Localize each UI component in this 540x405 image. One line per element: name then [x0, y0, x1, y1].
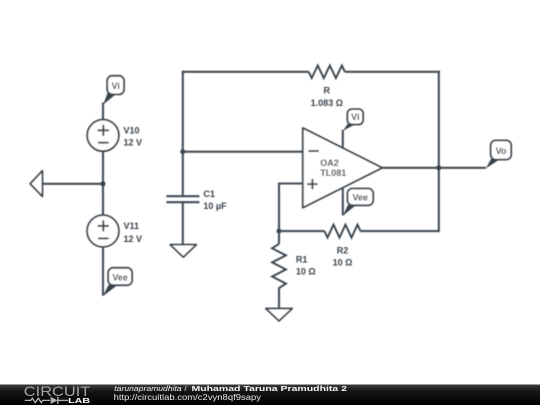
- svg-text:Vee: Vee: [353, 193, 369, 203]
- CircuitLab logo: [24, 384, 91, 405]
- wire op-amp output: [382, 167, 486, 169]
- ground (below C1): [170, 245, 196, 258]
- svg-text:Vo: Vo: [496, 146, 507, 156]
- svg-text:R2: R2: [337, 246, 349, 256]
- svg-text:Vi: Vi: [351, 112, 359, 122]
- footer credit text: [114, 384, 347, 402]
- svg-text:12 V: 12 V: [124, 138, 143, 148]
- svg-text:12 V: 12 V: [124, 234, 143, 244]
- svg-text:OA2: OA2: [320, 158, 339, 168]
- wire top rail left: [182, 71, 309, 73]
- net flag Vo: [486, 140, 511, 168]
- svg-text:LAB: LAB: [68, 396, 90, 405]
- voltage source V10: [87, 120, 119, 152]
- svg-text:http://circuitlab.com/c2vyn8qf: http://circuitlab.com/c2vyn8qf9sapy: [114, 393, 262, 402]
- svg-text:TL081: TL081: [320, 168, 346, 178]
- svg-text:V10: V10: [124, 126, 140, 136]
- resistor R2: [325, 225, 361, 238]
- ground (below R1): [266, 309, 292, 321]
- svg-text:V11: V11: [124, 221, 140, 231]
- wire C1-to-ground: [182, 202, 184, 244]
- label C1 value: [203, 189, 227, 211]
- label V10 value: [124, 126, 143, 148]
- op-amp V- power pin: [342, 188, 344, 216]
- svg-text:Muhamad Taruna Pramudhita 2: Muhamad Taruna Pramudhita 2: [192, 384, 348, 393]
- wire right rail vertical: [438, 71, 440, 232]
- svg-text:R: R: [324, 86, 331, 96]
- voltage source V11: [87, 215, 119, 247]
- junction output/right rail: [436, 165, 441, 170]
- svg-text:10 Ω: 10 Ω: [333, 258, 353, 268]
- svg-text:10 Ω: 10 Ω: [296, 266, 316, 276]
- svg-text:10 µF: 10 µF: [203, 201, 227, 211]
- label R1 value: [296, 254, 316, 276]
- svg-text:R1: R1: [296, 254, 308, 264]
- junction at left rail / inverting input: [180, 149, 185, 154]
- ground (left of sources): [30, 171, 103, 197]
- wire R2 to right rail: [361, 230, 439, 232]
- label R2 value: [333, 246, 353, 268]
- wire top rail right: [345, 71, 440, 73]
- svg-text:1.083 Ω: 1.083 Ω: [311, 98, 343, 108]
- wire left rail vertical: [182, 71, 184, 196]
- wire V11-to-Vee flag: [102, 247, 104, 296]
- capacitor C1: [166, 196, 199, 202]
- wire to inverting input: [183, 151, 303, 153]
- net flag Vee (source): [103, 268, 132, 296]
- wire noninverting input to bottom node: [279, 184, 303, 232]
- wire flag-to-V10: [102, 103, 104, 120]
- label OA2 TL081: [320, 158, 346, 178]
- resistor R1: [272, 231, 286, 308]
- svg-text:Vee: Vee: [112, 273, 128, 283]
- svg-text:Vi: Vi: [112, 81, 120, 91]
- op-amp V+ power pin: [342, 130, 344, 148]
- junction at sources midpoint: [101, 181, 106, 186]
- svg-text:tarunapramudhita: tarunapramudhita: [114, 384, 182, 393]
- net flag Vi (source): [103, 76, 124, 105]
- label R value: [311, 86, 343, 108]
- label V11 value: [124, 221, 143, 244]
- wire V10-to-V11: [102, 151, 104, 215]
- junction at R1/R2 node: [277, 229, 282, 234]
- wire bottom node to R2: [279, 230, 325, 232]
- svg-text:C1: C1: [203, 189, 215, 199]
- net flag Vee (op-amp V-): [343, 189, 373, 216]
- footer bar: [0, 385, 540, 405]
- op-amp OA2: [303, 128, 382, 208]
- resistor R: [309, 66, 345, 79]
- net flag Vi (op-amp V+): [343, 109, 363, 131]
